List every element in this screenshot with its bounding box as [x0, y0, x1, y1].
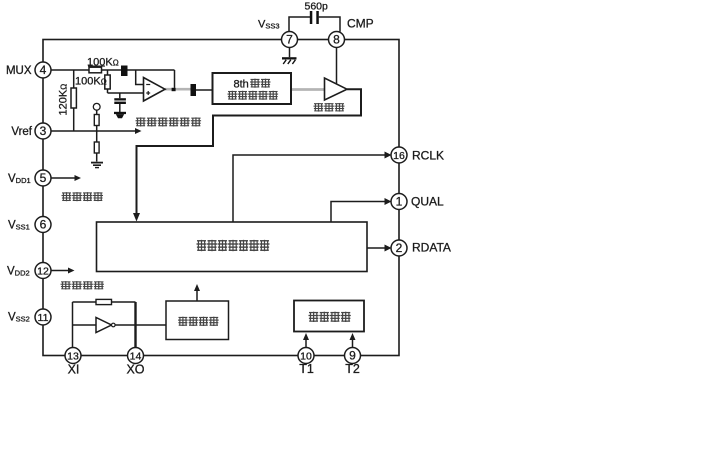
label anti-alias filter (6 cjk chars) — [136, 117, 202, 126]
capacitor C1 series bar — [121, 66, 128, 77]
resistor oscillator feedback — [96, 299, 112, 304]
arrowhead into demodulator — [133, 213, 140, 222]
measure box — [294, 301, 364, 332]
svg-text:8th: 8th — [234, 79, 249, 91]
svg-text:4: 4 — [40, 63, 47, 77]
label filter box line2 (5 cjk chars) — [228, 91, 279, 100]
svg-text:11: 11 — [38, 312, 49, 324]
resistor divider R4 — [94, 142, 99, 153]
pin 13 XI — [65, 348, 81, 364]
pin 8 CMP — [329, 32, 345, 48]
pin 3 Vref — [35, 123, 51, 139]
label demodulator unit (7 cjk chars) — [197, 240, 270, 251]
wire R2 top lead — [107, 70, 109, 75]
svg-text:10: 10 — [300, 350, 312, 362]
arrowhead QUAL — [385, 198, 392, 205]
resistor divider R3 — [94, 115, 99, 126]
wire VDD2 arrow line — [51, 270, 69, 272]
svg-text:3: 3 — [40, 124, 47, 138]
wire divider R4 to ground — [96, 153, 98, 162]
arrowhead Vref line — [135, 128, 142, 134]
wire oscillator loop top — [73, 301, 97, 303]
wire C2 to filter box — [196, 89, 213, 91]
resistor R1 100K horizontal — [89, 67, 102, 73]
pin 9 T2 — [345, 348, 361, 364]
arrowhead T1 up — [303, 333, 309, 340]
wire pin7 ground stem — [289, 48, 291, 58]
svg-text:100KΩ: 100KΩ — [75, 76, 107, 88]
ground below C3 — [114, 112, 126, 114]
pin 12 VDD2 — [35, 263, 51, 279]
svg-text:120KΩ: 120KΩ — [58, 84, 70, 116]
arrowhead clock box up — [194, 284, 200, 291]
divider top terminal circle — [93, 103, 100, 110]
wire oscillator left vertical XI — [72, 302, 74, 348]
capacitor C3 plates — [114, 98, 126, 100]
svg-text:1: 1 — [396, 195, 403, 209]
svg-text:QUAL: QUAL — [411, 195, 444, 209]
wire R1 to C1 — [102, 69, 122, 71]
wire comparator output path (thick) — [137, 89, 362, 214]
wire MUX pin4 to R1 — [51, 69, 89, 71]
svg-text:560p: 560p — [305, 1, 329, 13]
wire XO vertical (thick) — [134, 302, 136, 348]
gray wire filter to comparator — [291, 88, 325, 91]
wire feedback vertical to op-amp output — [174, 70, 176, 90]
arrowhead RCLK — [385, 152, 392, 159]
wire Vref pin3 line — [51, 130, 137, 132]
arrowhead T2 up — [350, 333, 356, 340]
pin 5 VDD1 — [35, 170, 51, 186]
wire RCLK from demodulator — [233, 155, 386, 222]
wire C3 top lead — [119, 93, 121, 98]
svg-text:7: 7 — [286, 33, 293, 47]
svg-text:XO: XO — [126, 363, 144, 377]
wire clock box up arrow — [196, 290, 198, 302]
label analog power (4 cjk chars) — [62, 192, 104, 201]
resistor R2 100K vertical — [105, 75, 110, 89]
svg-text:Vref: Vref — [11, 126, 32, 138]
resistor 120K vertical — [71, 88, 76, 108]
svg-text:16: 16 — [393, 150, 405, 162]
wire oscillator loop top right — [112, 301, 136, 303]
underline of 100K label — [88, 65, 105, 67]
pin 14 XO — [128, 348, 144, 364]
label reference clock (4 cjk chars) — [178, 317, 219, 326]
capacitor 560p plates — [310, 11, 313, 24]
svg-text:5: 5 — [40, 171, 47, 185]
gray wire op-amp output — [165, 88, 191, 91]
label digital power (4 cjk chars) — [61, 281, 105, 289]
pin 1 QUAL — [391, 194, 407, 210]
wire RDATA from demodulator — [367, 247, 386, 249]
svg-text:RCLK: RCLK — [412, 149, 444, 163]
label measure circuit (4 cjk chars) — [309, 312, 351, 322]
clock box — [166, 301, 229, 340]
svg-text:2: 2 — [396, 241, 403, 255]
svg-text:T1: T1 — [299, 362, 314, 376]
svg-text:9: 9 — [349, 348, 356, 362]
inverter U3 — [96, 318, 112, 333]
demodulator box — [97, 222, 368, 272]
pin 16 RCLK — [391, 147, 407, 163]
junction op-amp output/feedback — [172, 88, 176, 91]
wire divider circle lead — [96, 110, 98, 115]
wire 120K bottom lead — [73, 108, 75, 131]
ground below divider (3 bars) — [91, 162, 103, 164]
label filter box line1 cjk (2 chars) — [250, 79, 271, 88]
wire C3 bottom lead — [119, 104, 121, 112]
svg-text:8: 8 — [333, 33, 340, 47]
wire pin8 to comparator — [336, 48, 338, 84]
wire VDD1 arrow line — [51, 177, 75, 179]
svg-text:13: 13 — [67, 350, 79, 362]
wire T2 arrow — [352, 339, 354, 348]
comparator U2 — [325, 78, 348, 100]
capacitor C2 series bar — [191, 84, 197, 96]
pin 4 MUX — [35, 62, 51, 78]
ground below pin7 (hatched) — [282, 57, 297, 59]
wire T1 arrow — [305, 339, 307, 348]
wire QUAL from demodulator — [331, 202, 386, 223]
filter box — [213, 73, 292, 104]
label comparator (3 cjk chars) — [314, 103, 345, 112]
op-amp U1 — [144, 78, 166, 102]
wire R2 bottom lead — [107, 89, 109, 93]
svg-text:CMP: CMP — [347, 17, 374, 31]
wire branch down to op-amp inverting input — [136, 70, 144, 85]
pin 2 RDATA — [391, 240, 407, 256]
wire inverter output to clock box — [115, 324, 166, 326]
wire node A to op-amp non-inverting input — [108, 92, 144, 94]
IC outline — [43, 40, 399, 356]
pin 11 VSS2 — [35, 309, 51, 325]
svg-text:RDATA: RDATA — [412, 241, 451, 255]
svg-text:MUX: MUX — [6, 65, 32, 77]
pin 6 VSS1 — [35, 217, 51, 233]
svg-text:12: 12 — [37, 265, 49, 277]
svg-text:6: 6 — [40, 218, 47, 232]
pin 7 VSS3 — [282, 32, 298, 48]
svg-text:T2: T2 — [345, 362, 360, 376]
svg-text:14: 14 — [130, 350, 142, 362]
arrowhead RDATA — [385, 245, 392, 252]
wire 560p right bracket — [319, 17, 340, 32]
wire inverter input — [73, 324, 97, 326]
arrowhead VDD1 — [75, 175, 82, 181]
wire 560p left bracket — [289, 17, 310, 32]
wire 120K top lead — [73, 70, 75, 88]
wire C1 to feedback corner — [128, 69, 175, 71]
wire divider R3 to Vref line — [96, 126, 98, 143]
arrowhead VDD2 — [68, 268, 75, 274]
svg-text:XI: XI — [68, 363, 80, 377]
pin 10 T1 — [298, 348, 314, 364]
